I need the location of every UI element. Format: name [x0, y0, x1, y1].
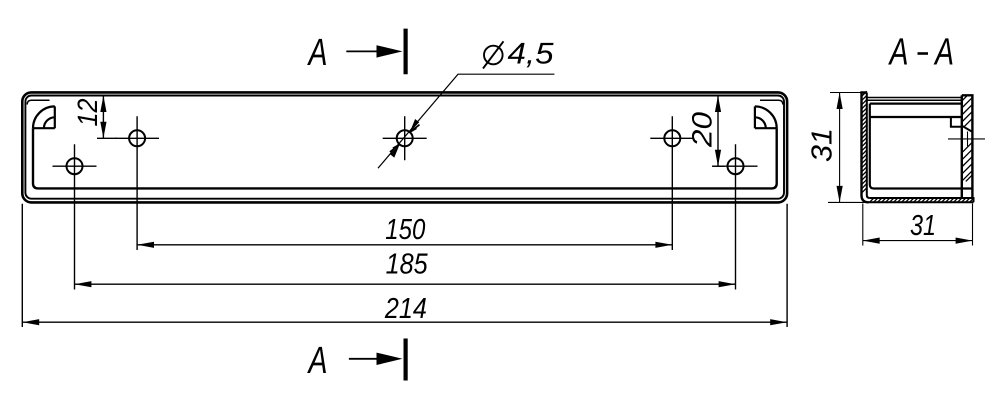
svg-text:31: 31 — [807, 128, 839, 162]
svg-text:12: 12 — [72, 98, 103, 126]
svg-text:A: A — [307, 340, 327, 382]
svg-text:31: 31 — [910, 210, 936, 242]
svg-text:A: A — [934, 32, 954, 74]
svg-text:150: 150 — [385, 214, 425, 246]
svg-text:A: A — [307, 32, 327, 74]
svg-text:185: 185 — [386, 249, 429, 281]
svg-text:4,5: 4,5 — [508, 38, 554, 71]
svg-text:A: A — [888, 32, 908, 74]
svg-text:20: 20 — [687, 112, 718, 149]
svg-text:214: 214 — [384, 293, 427, 325]
